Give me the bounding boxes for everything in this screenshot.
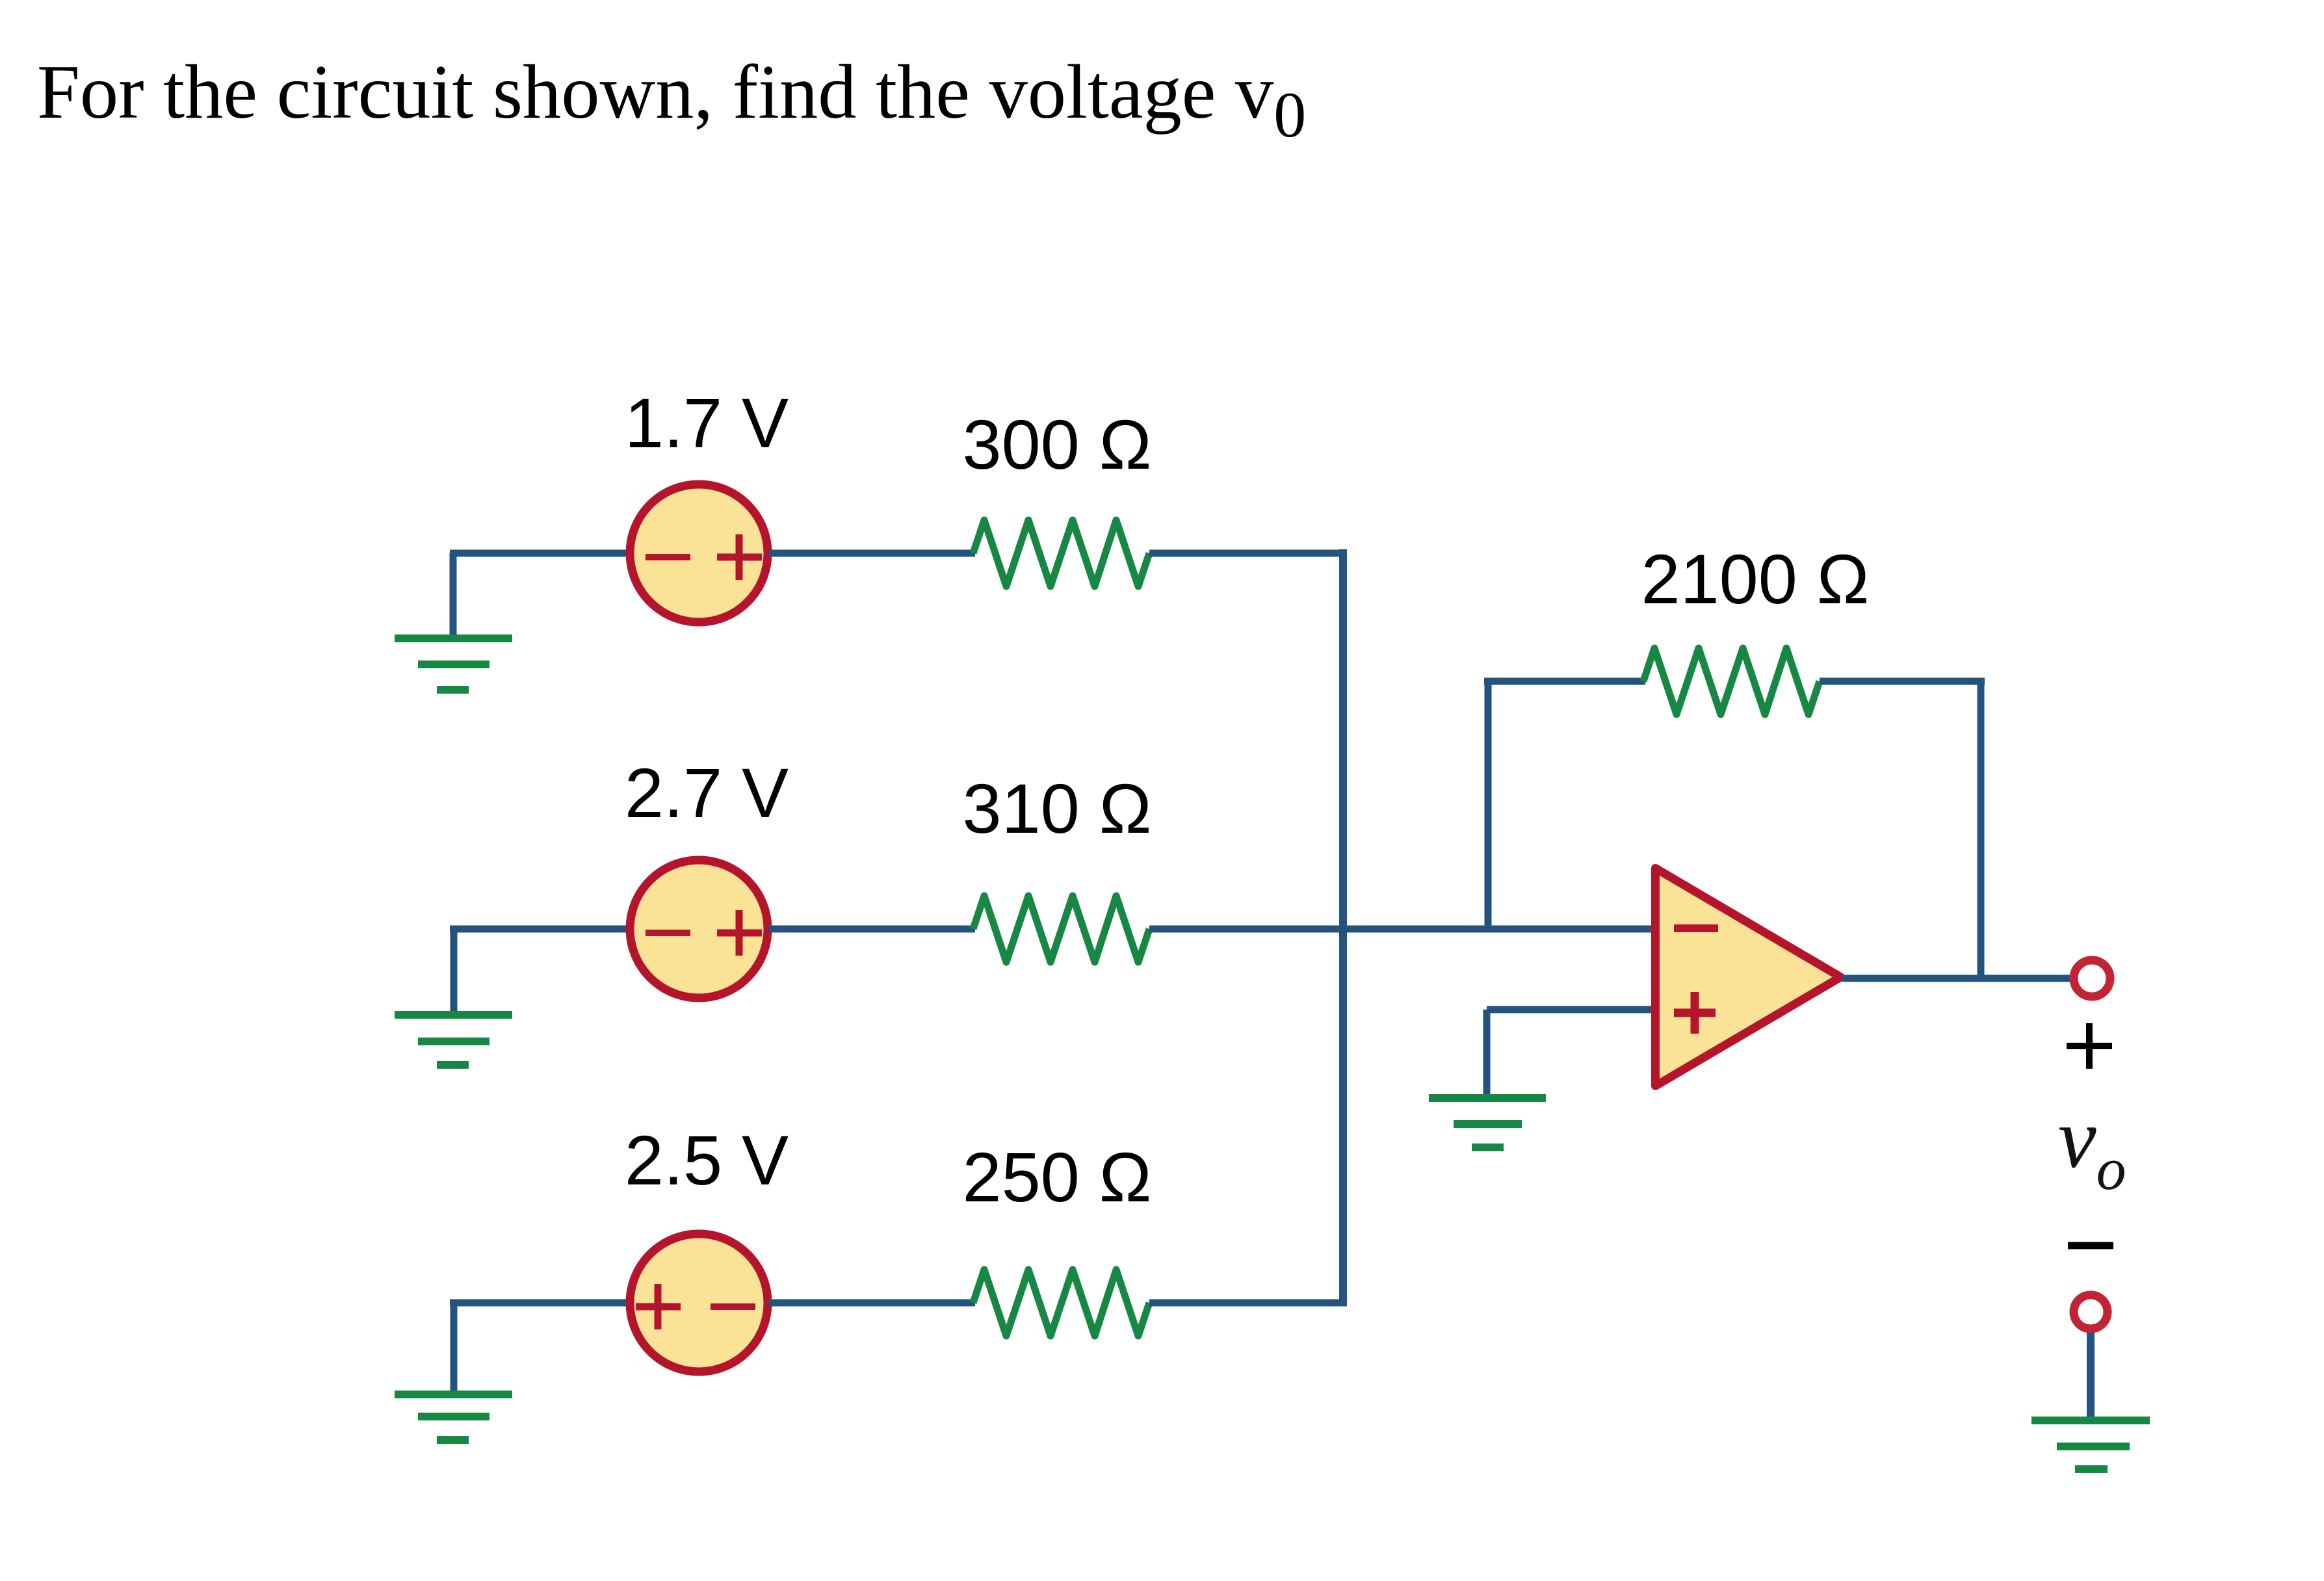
svg-text:1.7 V: 1.7 V [625,384,789,462]
node: output terminal (top) [2074,960,2110,997]
wire: V2 to R2 [769,926,975,933]
op-amp U1 [1656,869,1841,1086]
node: output terminal (bottom) [2074,1295,2108,1329]
wire: op-amp output [1842,975,2070,982]
wire: V1 to R1 [769,550,975,557]
wire: R3 to bus [1149,1300,1347,1307]
U1 inverting input sign [1674,924,1718,932]
voltage source V1 (1.7 V) [630,484,768,622]
wire: V1 ground stub vertical [450,553,457,638]
wire: bottom terminal to ground [2087,1333,2095,1420]
V2 minus terminal sign [646,930,690,936]
svg-text:2.7 V: 2.7 V [625,753,789,832]
voltage source V3 (2.5 V) [630,1234,768,1372]
wire: feedback left vertical [1485,681,1492,929]
resistor R3 [973,1270,1149,1336]
V1 minus terminal sign [646,554,690,560]
V1 plus terminal sign [717,534,762,580]
wire: feedback right vertical [1978,681,1985,978]
svg-text:310 Ω: 310 Ω [963,769,1152,848]
wire: R1 to bus [1149,550,1346,557]
U1 noninverting input sign [1674,992,1716,1034]
resistor R2 [973,896,1149,962]
wire: R2 to inverting input of op-amp [1149,926,1660,933]
V3 body circle [630,1234,768,1372]
wire: feedback top right [1820,678,1985,685]
ground G4 (op-amp + input) [1429,1098,1546,1147]
svg-text:2100 Ω: 2100 Ω [1641,540,1870,618]
wire: noninverting input horizontal [1487,1006,1660,1013]
svg-text:300 Ω: 300 Ω [963,405,1152,484]
ground G2 [395,1015,512,1065]
resistor Rf (2100 ohm) [1643,648,1820,714]
wire: summing bus vertical [1339,549,1347,1303]
ground G5 (output reference) [2031,1420,2150,1469]
wire: left of V3 [450,1300,629,1307]
label: + (output polarity) [2067,1023,2112,1069]
svg-text:250 Ω: 250 Ω [963,1138,1152,1216]
wire: noninverting to ground vertical [1483,1010,1491,1098]
voltage source V2 (2.7 V) [630,860,768,998]
wire: feedback top left [1484,678,1645,685]
V3 plus terminal sign [636,1284,681,1329]
svg-text:2.5 V: 2.5 V [625,1121,789,1199]
wire: left of V2 [450,926,629,933]
V2 plus terminal sign [717,910,762,956]
wire: V2 ground stub vertical [450,929,458,1015]
wire: V3 to R3 [769,1300,975,1307]
U1 triangle body [1656,869,1841,1086]
resistor R1 [973,520,1149,586]
V1 body circle [630,484,768,622]
wire: V3 ground stub vertical [450,1303,458,1394]
label: - (output polarity) [2068,1242,2113,1249]
V2 body circle [630,860,768,998]
V3 minus terminal sign [711,1303,755,1310]
ground G1 [395,638,512,690]
wire: left of V1 [450,550,629,557]
ground G3 [395,1394,512,1440]
